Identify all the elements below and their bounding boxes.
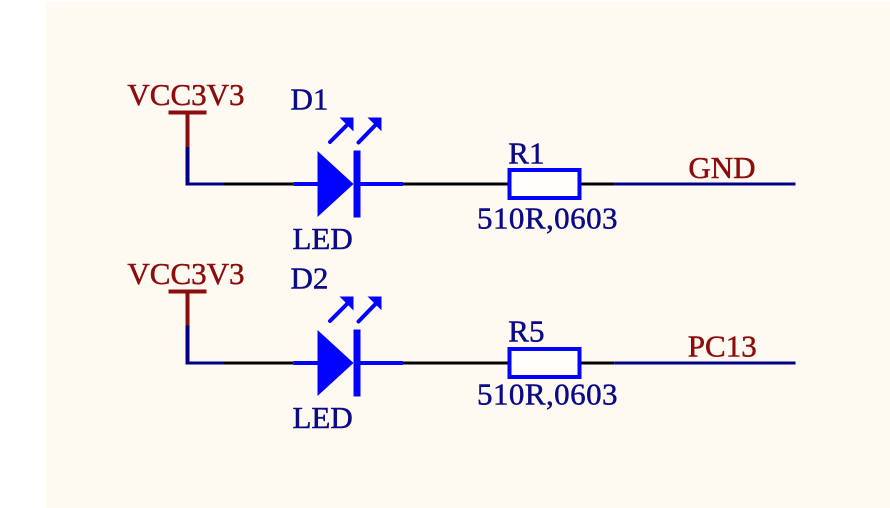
D2 cathode pin: [361, 361, 404, 365]
LED D1: [293, 118, 403, 218]
D1 emission arrow 2 head: [368, 118, 382, 132]
D1 cathode pin: [361, 182, 404, 186]
power symbol VCC3V3 (top): [169, 113, 207, 148]
svg-text:D1: D1: [291, 82, 329, 117]
wire to D1 anode (top, black part): [224, 183, 293, 186]
svg-text:R1: R1: [508, 136, 544, 171]
D1 anode pin: [293, 182, 318, 186]
D2 emission arrow 2 shaft: [359, 304, 376, 322]
LED D2: [293, 297, 403, 397]
D1 emission arrow 1 head: [340, 118, 354, 132]
wire GND net (navy part): [614, 183, 795, 186]
svg-text:PC13: PC13: [688, 328, 757, 363]
D1 emission arrow 2 shaft: [359, 125, 376, 143]
D2 anode pin: [293, 361, 318, 365]
D2 emission arrow 1 shaft: [330, 304, 348, 322]
svg-text:510R,0603: 510R,0603: [477, 377, 618, 412]
power symbol VCC3V3 (bottom): [169, 292, 207, 326]
svg-text:GND: GND: [688, 150, 755, 185]
svg-text:R5: R5: [508, 314, 544, 349]
D1 cathode bar: [354, 151, 361, 218]
svg-text:VCC3V3: VCC3V3: [127, 256, 244, 291]
svg-text:VCC3V3: VCC3V3: [127, 77, 244, 112]
D2 emission arrow 2 head: [368, 297, 382, 311]
resistor R1 body: [510, 170, 580, 198]
D2 cathode bar: [354, 330, 361, 397]
wire D2 cathode to R5: [403, 362, 508, 365]
D2 emission arrow 1 head: [340, 297, 354, 311]
D1 triangle: [318, 151, 354, 217]
wire D1 cathode to R1: [403, 183, 508, 186]
wire horizontal from bend toward D1 anode (top, navy part): [186, 183, 225, 186]
wire vertical from VCC3V3 to bend (top): [186, 147, 190, 186]
svg-text:LED: LED: [293, 400, 353, 435]
wire PC13 net (navy part): [614, 362, 795, 365]
svg-text:LED: LED: [293, 221, 353, 256]
wire to D2 anode (black part): [224, 362, 293, 365]
D1 emission arrow 1 shaft: [330, 125, 348, 143]
D2 triangle: [318, 330, 354, 396]
resistor R5 body: [510, 349, 580, 377]
svg-text:510R,0603: 510R,0603: [477, 200, 618, 235]
wire horizontal from bend toward D2 anode (navy part): [186, 362, 225, 365]
wire R5 to PC13 net (black part): [582, 362, 615, 365]
wire vertical from VCC3V3 to bend (bottom): [186, 326, 190, 365]
svg-text:D2: D2: [291, 261, 329, 296]
wire R1 to GND net (black part): [582, 183, 615, 186]
